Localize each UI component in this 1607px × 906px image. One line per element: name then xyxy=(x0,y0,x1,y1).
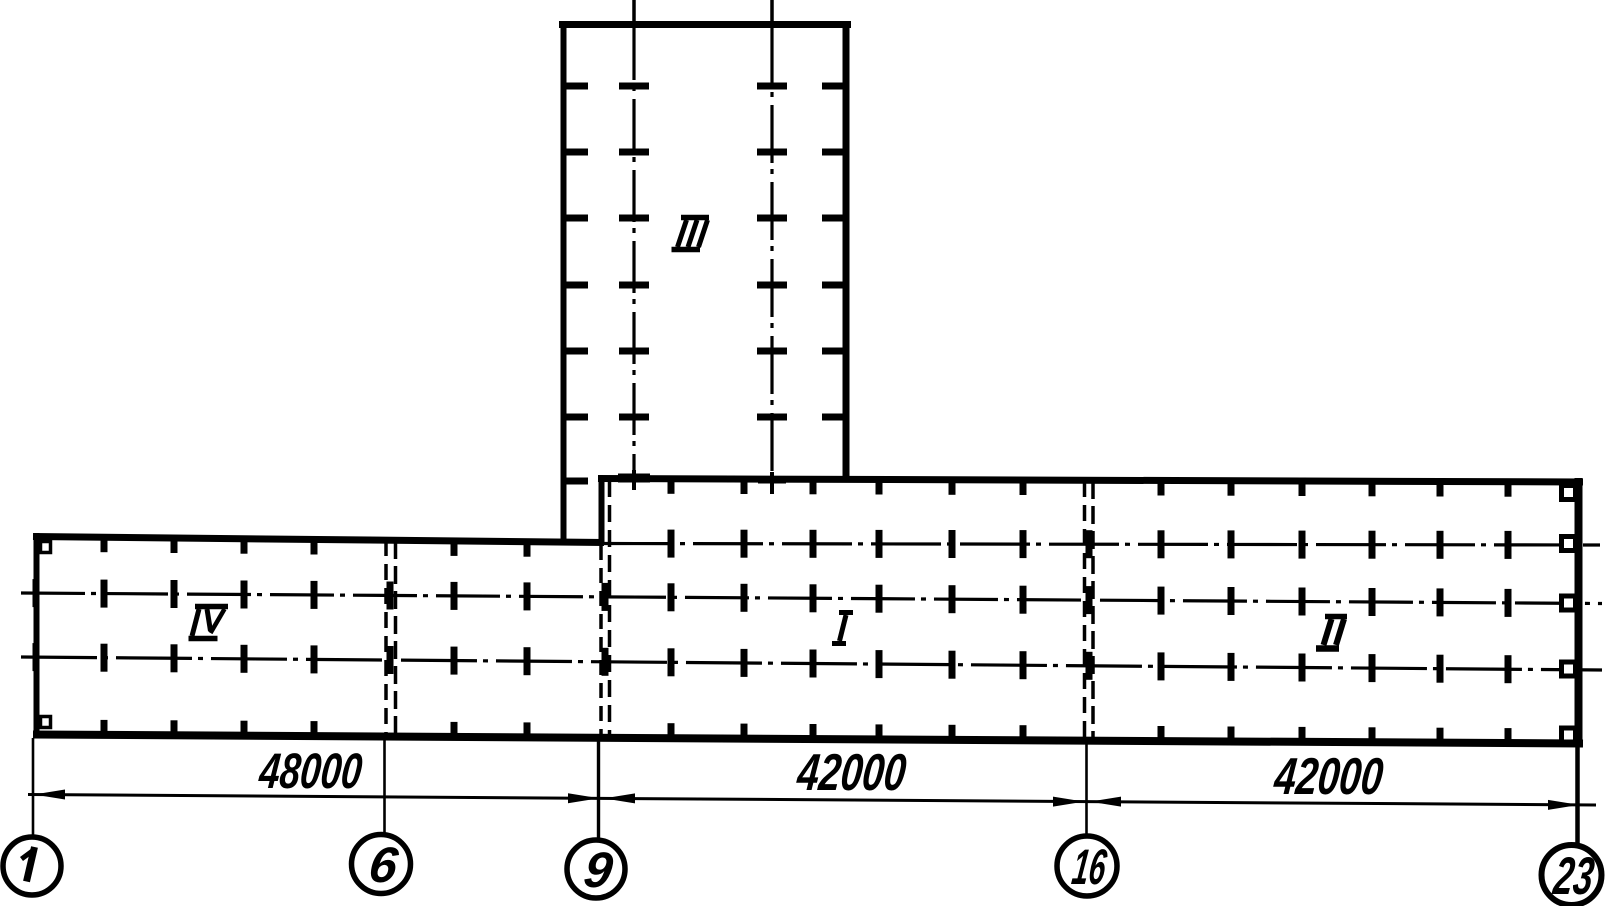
corner square, band IV top-left xyxy=(41,542,51,553)
wall anchor squares on right wall xyxy=(1562,486,1576,743)
dimension line xyxy=(28,795,1596,806)
extension line axis 1 xyxy=(32,738,35,837)
axis x=634 junction mark on band edge xyxy=(618,470,650,490)
dimension text 48000 xyxy=(256,743,365,799)
column ticks on band IV top wall xyxy=(101,536,531,557)
column ticks on band bottom wall xyxy=(101,720,1512,744)
zone label III xyxy=(672,218,710,250)
centre line row A xyxy=(604,544,1600,546)
band bottom wall xyxy=(33,735,1583,744)
dimension arrow at axis 23 xyxy=(1548,800,1579,810)
right band top wall xyxy=(598,479,1583,483)
wall column ticks, building III left wall xyxy=(564,83,588,485)
grid bubble axis 1 xyxy=(3,837,61,895)
dimension text 42000 (axes 16-23) xyxy=(1271,748,1386,806)
svg-text:42000: 42000 xyxy=(1271,748,1386,806)
dimension arrows at axis 16 xyxy=(1053,797,1121,807)
grid bubble axis 16 xyxy=(1057,836,1117,896)
building III column axis at x=772 xyxy=(770,0,774,480)
partition axis 9 (double dashed line) xyxy=(601,480,610,739)
svg-text:42000: 42000 xyxy=(794,744,909,802)
axis x=772 junction mark on band edge xyxy=(758,472,786,494)
dimension arrow at axis 1 xyxy=(34,790,65,800)
extension line axis 6 xyxy=(383,739,386,836)
centre line row B xyxy=(21,593,1602,604)
building III left wall xyxy=(561,21,567,542)
zone label II xyxy=(1316,617,1347,649)
column cross marks on axis x=634 xyxy=(619,83,649,421)
column crosses row A xyxy=(668,530,1512,559)
band left wall xyxy=(34,533,40,738)
zone label IV xyxy=(189,607,229,639)
building III right wall xyxy=(843,21,850,480)
column crosses row C xyxy=(33,643,1512,683)
extension line axis 9 xyxy=(597,740,600,841)
column cross marks on axis x=772 xyxy=(757,83,787,421)
column ticks on right band top wall xyxy=(668,478,1512,497)
band IV top wall xyxy=(33,537,604,543)
grid bubble axis 6 xyxy=(352,835,411,894)
band right wall xyxy=(1575,478,1583,745)
partition axis 16 (double dashed line) xyxy=(1085,481,1094,740)
corner square, band IV bottom-left xyxy=(41,717,51,728)
building III column axis at x=634 xyxy=(632,0,636,474)
extension line axis 16 xyxy=(1085,741,1088,836)
step wall at axis 9 xyxy=(599,477,605,543)
partition axis 6 (double dashed line) xyxy=(386,540,396,736)
extension line axis 23 xyxy=(1575,745,1580,846)
dimension arrows at axis 9 xyxy=(568,793,635,803)
centre line row C xyxy=(21,657,1602,670)
building III top wall xyxy=(559,21,851,28)
dimension text 42000 (axes 9-16) xyxy=(794,744,909,802)
grid bubble axis 23 xyxy=(1542,845,1602,906)
wall column ticks, building III right wall xyxy=(822,83,846,421)
column crosses row B xyxy=(33,579,1512,617)
svg-text:48000: 48000 xyxy=(256,743,365,799)
grid bubble axis 9 xyxy=(567,840,625,898)
zone label I xyxy=(832,613,853,644)
